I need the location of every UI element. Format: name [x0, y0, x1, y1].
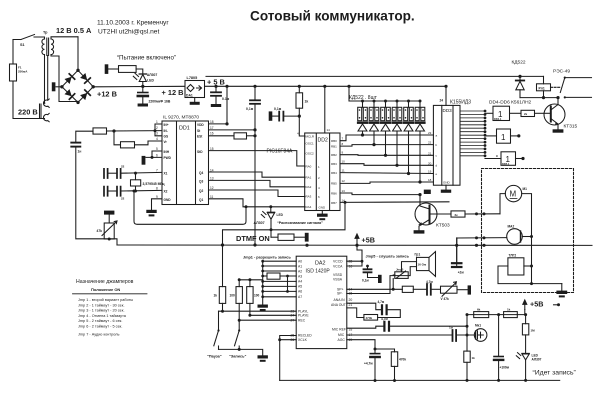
svg-text:RB5: RB5: [331, 182, 337, 186]
svg-text:+5В: +5В: [362, 236, 375, 245]
diode column 5: [404, 100, 414, 176]
svg-text:DD5.1: DD5.1: [502, 162, 510, 166]
svg-text:MCLR: MCLR: [306, 134, 315, 138]
svg-text:Q1: Q1: [199, 198, 203, 202]
svg-text:16 Ом: 16 Ом: [418, 263, 428, 267]
svg-text:+5В: +5В: [530, 300, 543, 309]
relay contact switch: [560, 77, 591, 99]
svg-text:РЭС-49: РЭС-49: [553, 69, 570, 75]
DD3 output node dots: [484, 110, 487, 158]
crystal ZQ1: [131, 172, 166, 193]
svg-text:Jmp5: Jmp5: [396, 268, 404, 272]
svg-text:DD4-DD6 К561ЛН2: DD4-DD6 К561ЛН2: [489, 100, 532, 106]
svg-text:A1: A1: [298, 264, 302, 268]
label +5V right: [523, 300, 544, 315]
LED VD7 DTMF indicator: [261, 212, 283, 238]
relay coil Rl1: [537, 76, 551, 97]
svg-text:StD: StD: [197, 150, 203, 154]
wire RB7 tape head feed: [457, 236, 507, 245]
svg-text:1k: 1k: [305, 100, 309, 104]
svg-text:Тр: Тр: [43, 31, 48, 35]
resistor R REC pullup: [247, 278, 260, 317]
svg-text:DD4.1: DD4.1: [494, 117, 502, 121]
diode column 3: [381, 100, 391, 157]
motor M1: [505, 185, 527, 201]
resistor R-led: [108, 66, 136, 73]
svg-text:RA3: RA3: [306, 195, 312, 199]
svg-text:2к: 2к: [455, 213, 459, 217]
wire DA2 VCC feed: [347, 245, 364, 266]
svg-text:VCCA: VCCA: [333, 264, 343, 268]
switch common ground: [219, 348, 268, 362]
svg-text:2: 2: [156, 126, 158, 130]
wire secondary to bridge top: [77, 37, 79, 71]
resistor R-in2: [121, 142, 135, 148]
cap C-micref 4.7: [347, 317, 469, 331]
wire PLAYL: [219, 310, 297, 312]
trimmer R-audio 47k: [97, 211, 118, 241]
svg-text:КТ315: КТ315: [564, 124, 578, 130]
transistor Q1 KT503: [415, 203, 451, 230]
wire SP+: [347, 288, 403, 291]
svg-text:UT2HI ut2hi@qsl.net: UT2HI ut2hi@qsl.net: [98, 29, 159, 36]
wire REC: [239, 319, 296, 321]
trimmer R-volume 47k: [441, 282, 468, 301]
svg-text:11: 11: [342, 169, 345, 173]
svg-text:RB7: RB7: [331, 201, 337, 205]
svg-text:3: 3: [156, 132, 158, 136]
svg-text:1: 1: [156, 120, 158, 124]
wire to LED VD5: [136, 69, 143, 74]
jumper ladder vertical tie: [286, 275, 289, 293]
resistor R-MCLR 1k: [296, 85, 308, 136]
svg-text:16: 16: [210, 132, 214, 136]
svg-text:24: 24: [440, 99, 444, 103]
jumper ladder A0-A7: [261, 260, 296, 305]
DD2 ground: [317, 211, 328, 221]
svg-text:AGC: AGC: [338, 338, 346, 342]
svg-text:2к: 2к: [524, 112, 528, 116]
svg-text:АЛ307: АЛ307: [532, 358, 542, 362]
wire row1 to DD1 X1: [121, 171, 162, 174]
head MA2: [507, 225, 533, 245]
wire relay bottom node: [520, 96, 560, 99]
terminal bar LED feed: [105, 64, 109, 74]
wire trimmer into bottom run: [108, 238, 110, 240]
svg-text:S1: S1: [20, 43, 25, 47]
svg-text:14: 14: [327, 128, 331, 132]
wire DD2 RB1 to DD3 p22: [340, 145, 433, 147]
switch S1: [13, 35, 43, 48]
svg-text:23: 23: [428, 131, 432, 135]
wire DD2 RB3 to DD3 p20: [340, 164, 433, 166]
svg-text:12 В 0.5 А: 12 В 0.5 А: [56, 26, 92, 35]
input capacitor C3: [71, 143, 81, 154]
svg-text:Рл1: Рл1: [539, 86, 545, 90]
svg-text:ESt: ESt: [197, 135, 203, 139]
svg-text:RB1: RB1: [331, 144, 337, 148]
chip DD2 PIC16F84A: [297, 128, 345, 211]
svg-text:“Распознавание сигнала”: “Распознавание сигнала”: [277, 221, 323, 225]
wire to motor: [500, 194, 505, 214]
DD1 GND ground: [146, 199, 162, 217]
terminal bar dtmf: [305, 233, 309, 242]
capacitor C1 2200u: [138, 86, 171, 106]
svg-text:Jmp1 - разрешить запись: Jmp1 - разрешить запись: [243, 255, 292, 259]
svg-text:0,1м: 0,1м: [274, 107, 282, 111]
svg-text:470k: 470k: [366, 316, 373, 320]
resistor R-mic3: [464, 351, 475, 382]
svg-text:6k: 6k: [477, 308, 481, 312]
svg-text:+4,7м: +4,7м: [364, 362, 373, 366]
svg-text:220 В: 220 В: [18, 108, 38, 117]
wire mains bottom: [13, 81, 45, 119]
svg-text:Jmp5 - слушать запись: Jmp5 - слушать запись: [366, 255, 410, 259]
chip DD1 MT8870 DTMF decoder: [162, 115, 209, 205]
inverter gate DD4.2: [485, 129, 520, 143]
terminal bar at bridge minus: [52, 82, 62, 91]
svg-text:1М: 1М: [531, 329, 536, 333]
svg-text:+100м: +100м: [500, 366, 510, 370]
resistor R1k PLAYL pullup: [214, 245, 226, 313]
speaker coupling cap big: [452, 238, 464, 275]
svg-text:A6: A6: [298, 290, 302, 294]
diode array top bus: [347, 85, 420, 101]
svg-text:КД522: КД522: [512, 60, 526, 66]
svg-text:“Пытание включено”: “Пытание включено”: [117, 55, 176, 62]
wire PLAYE: [250, 314, 296, 316]
svg-text:DD1: DD1: [179, 126, 190, 132]
wire left mains vertical: [12, 40, 14, 65]
svg-text:3,579545 МГц: 3,579545 МГц: [143, 182, 166, 186]
svg-text:Jmp 3 - 1 таймаут - 20 сек.: Jmp 3 - 1 таймаут - 20 сек.: [78, 309, 125, 313]
cap C-mic: [449, 326, 474, 342]
svg-text:8: 8: [156, 187, 158, 191]
svg-text:1k: 1k: [214, 294, 218, 298]
resistor R-mic2: [504, 308, 518, 318]
svg-text:1k: 1k: [507, 308, 511, 312]
svg-text:DD3: DD3: [443, 108, 453, 113]
node in1: [112, 129, 115, 132]
wire R-in2 to DD1 pin4: [135, 141, 163, 145]
svg-text:RA0: RA0: [306, 164, 312, 168]
svg-text:Мк1: Мк1: [475, 324, 481, 328]
svg-text:LED: LED: [277, 213, 284, 217]
wire R-in1 to DD1 pin2: [107, 130, 163, 132]
diode column 1: [358, 100, 368, 137]
svg-text:A4: A4: [298, 280, 302, 284]
svg-text:XCLK: XCLK: [298, 338, 308, 342]
svg-text:REC: REC: [298, 318, 306, 322]
diode VD6 KD522: [516, 75, 524, 98]
cap C-agc electrolytic: [364, 354, 380, 382]
wire row2 to DD1 X2: [121, 189, 162, 192]
inverter gate DD5.1: [485, 152, 525, 166]
wire audio bottom run: [76, 147, 117, 245]
svg-text:11.10.2003 г. Кременчуг: 11.10.2003 г. Кременчуг: [97, 20, 169, 27]
wire DD1 Q1/TOE to DD2 RA4: [209, 199, 305, 207]
svg-text:DA1: DA1: [186, 94, 193, 98]
unit TLG2: [498, 254, 562, 286]
svg-text:Jmp 2 - 1 таймаут - 30 сек.: Jmp 2 - 1 таймаут - 30 сек.: [78, 303, 125, 307]
wire DD2 RB5 to DD3 p18: [340, 182, 433, 183]
DD3 output stubs: [460, 111, 485, 156]
wire DD1 Q4 to DD2 RA1: [209, 172, 305, 177]
jumper table rule: [73, 293, 148, 295]
terminal bar audio out: [468, 285, 471, 294]
wire C4 down to DD1 St: [254, 105, 256, 246]
svg-text:0.1м: 0.1м: [222, 97, 230, 101]
svg-text:LED: LED: [147, 79, 154, 83]
microphone Mk1: [474, 324, 487, 342]
stray node right: [554, 303, 561, 306]
wire secondary to bridge bottom: [59, 56, 78, 102]
svg-text:18: 18: [428, 178, 432, 182]
svg-text:20: 20: [349, 298, 353, 302]
relay contact linkage dashed: [551, 86, 562, 88]
svg-text:0,1м: 0,1м: [246, 107, 254, 111]
svg-text:100: 100: [230, 294, 236, 298]
wire DD2 RB4 to DD3 p19: [340, 172, 433, 175]
wire +12V rail: [93, 85, 185, 88]
svg-text:VDD: VDD: [197, 123, 204, 127]
node TOE-X2: [133, 190, 136, 193]
jumper Jmp5: [393, 268, 408, 290]
svg-text:ANA OUT: ANA OUT: [331, 303, 346, 307]
svg-text:IN+: IN+: [164, 123, 169, 127]
svg-text:100: 100: [254, 294, 260, 298]
svg-text:VCCD: VCCD: [333, 260, 343, 264]
wire ANA IN: [347, 303, 381, 310]
svg-text:Jmp 6 - 2 таймаут - 5 сек.: Jmp 6 - 2 таймаут - 5 сек.: [78, 325, 122, 329]
DD1 pins1-3 bracket: [154, 124, 163, 136]
svg-text:“Идет запись”: “Идет запись”: [533, 370, 577, 377]
svg-text:М1: М1: [523, 187, 528, 191]
resistor R-A3: [267, 273, 296, 279]
chip DA2 ISD1420P: [291, 256, 353, 348]
svg-text:DD2: DD2: [318, 138, 328, 144]
tape unit ground: [556, 284, 567, 298]
wire MIC: [347, 334, 452, 336]
svg-text:Jmp 5 - 2 таймаут - 6 сек.: Jmp 5 - 2 таймаут - 6 сек.: [78, 319, 122, 323]
resistor R-dtmf: [271, 234, 305, 240]
svg-text:+12 В: +12 В: [97, 90, 117, 99]
cap C-mic electrolytic: [494, 315, 510, 382]
svg-text:13: 13: [342, 189, 346, 193]
wire RECLED XCLK: [278, 336, 296, 381]
wire motor to right bus: [522, 194, 532, 284]
resistor R-anaout 470k: [347, 308, 378, 320]
wire upper +5 branch to relay area: [206, 75, 544, 77]
svg-text:22: 22: [121, 197, 125, 201]
crystal load caps row2: [104, 187, 125, 201]
svg-text:GND: GND: [443, 181, 451, 185]
DD1 pin5-6 tie: [146, 151, 162, 159]
wire node to R-in2: [114, 131, 121, 145]
svg-text:1н: 1н: [78, 150, 82, 154]
svg-text:1: 1: [501, 133, 506, 142]
svg-text:RA1: RA1: [306, 175, 312, 179]
wire DD2 RB6 to KT503: [340, 193, 422, 204]
resistor R-motor: [451, 211, 500, 217]
svg-text:MIC REF: MIC REF: [332, 328, 346, 332]
decoupling caps DA2: [362, 265, 378, 283]
svg-text:PLAYE: PLAYE: [298, 314, 309, 318]
svg-text:250мА: 250мА: [18, 70, 28, 74]
wire AGC: [347, 340, 395, 353]
svg-text:Гр1: Гр1: [415, 253, 421, 257]
DD1 pin number labels: [156, 120, 214, 199]
wire DD2 RB2 to DD3 p21: [340, 154, 433, 157]
svg-text:L7805: L7805: [187, 76, 198, 80]
resistor R-sp 100k: [402, 286, 413, 292]
svg-text:M: M: [510, 190, 517, 199]
svg-text:Q3: Q3: [199, 180, 203, 184]
svg-text:IN-: IN-: [164, 129, 168, 133]
inverter gate DD4.1: [485, 106, 510, 121]
svg-text:“Запись”: “Запись”: [229, 355, 246, 359]
capacitor C5 0.1 MCLR: [269, 107, 301, 121]
cap C-anain 4.7: [378, 300, 401, 318]
capacitor C2 0.1 at regulator: [211, 85, 230, 107]
switch Pausa: [214, 311, 220, 349]
svg-text:DA2: DA2: [315, 261, 326, 267]
LED VD8 recording: [516, 353, 541, 382]
svg-text:VSSD: VSSD: [333, 273, 343, 277]
diode column 4: [392, 100, 402, 167]
svg-text:GND: GND: [319, 206, 327, 210]
svg-text:+ 12 В: + 12 В: [162, 88, 184, 97]
svg-text:0,1м: 0,1м: [362, 279, 369, 283]
svg-text:470k: 470k: [399, 358, 406, 362]
DD3 ground: [441, 185, 451, 193]
mic top feed wire: [466, 313, 528, 316]
svg-text:К155ИД3: К155ИД3: [450, 100, 471, 106]
bottom rail: [280, 379, 560, 381]
svg-text:A3: A3: [298, 274, 302, 278]
svg-text:Jmp 1 - второй вариант работы: Jmp 1 - второй вариант работы: [78, 298, 133, 302]
wire DD2 RB7 run: [340, 201, 449, 204]
svg-text:Jmp 7 - Аудио контроль: Jmp 7 - Аудио контроль: [78, 333, 119, 337]
svg-text:RB2: RB2: [331, 153, 337, 157]
svg-text:Q4: Q4: [199, 171, 203, 175]
wire +5V rail: [205, 85, 447, 87]
wire DD2 VDD to +5: [323, 85, 326, 133]
bridge rectifier VD1-VD4: [60, 69, 95, 105]
svg-text:2200мкФ 16В: 2200мкФ 16В: [149, 100, 171, 104]
svg-text:A2: A2: [298, 269, 302, 273]
svg-text:“Пауза”: “Пауза”: [207, 355, 222, 359]
svg-text:PWD: PWD: [164, 156, 172, 160]
terminal bar on DD1 pin6: [142, 156, 146, 165]
svg-text:22: 22: [428, 141, 432, 145]
svg-text:RB4: RB4: [331, 171, 337, 175]
svg-text:RB0: RB0: [331, 139, 337, 143]
wire mic node: [466, 315, 469, 352]
svg-text:Сотовый коммуникатор.: Сотовый коммуникатор.: [250, 9, 415, 24]
svg-text:OSC2: OSC2: [306, 152, 315, 156]
svg-text:IL 9270, MT8870: IL 9270, MT8870: [163, 115, 199, 121]
wire DD1 StD to DD2 RA0: [209, 151, 305, 166]
DTMF ON enable wire: [223, 202, 346, 245]
resistor R-led 1M: [522, 315, 535, 354]
svg-text:VSSA: VSSA: [333, 278, 343, 282]
svg-text:5: 5: [156, 147, 158, 151]
diode column 2: [369, 100, 379, 147]
svg-text:4,7м: 4,7м: [378, 300, 385, 304]
svg-text:7: 7: [156, 169, 158, 173]
KT503 emitter ground: [414, 230, 425, 233]
svg-text:12: 12: [210, 186, 214, 190]
svg-text:22: 22: [121, 165, 125, 169]
wire DD1 St to vertical: [209, 128, 257, 131]
svg-text:X1: X1: [164, 172, 168, 176]
jumper ladder ground: [258, 305, 268, 312]
svg-text:+2м: +2м: [458, 271, 465, 275]
svg-text:12: 12: [342, 179, 346, 183]
main +5 bus: [117, 243, 592, 247]
svg-text:ТЛГ2: ТЛГ2: [509, 254, 517, 258]
svg-text:OSC1: OSC1: [306, 141, 315, 145]
DD3 pin18 ground bar: [424, 190, 431, 194]
svg-text:4,7м: 4,7м: [381, 317, 388, 321]
svg-text:INH: INH: [164, 150, 170, 154]
plug connector: [40, 99, 50, 122]
wire cap to R input: [76, 131, 93, 142]
svg-text:МА2: МА2: [508, 225, 515, 229]
svg-text:Jmp 4 - Отмена 1 таймаута: Jmp 4 - Отмена 1 таймаута: [78, 314, 127, 318]
resistor R-agc 470k: [391, 352, 406, 382]
svg-text:Положение ON: Положение ON: [91, 287, 120, 292]
svg-text:A0: A0: [298, 260, 302, 264]
svg-text:6: 6: [156, 153, 158, 157]
svg-text:GS: GS: [164, 135, 169, 139]
diode column 6: [415, 100, 425, 184]
chip DD3 K155ID3: [428, 85, 471, 186]
wire DD1 Q3 to DD2 RA2: [209, 180, 305, 186]
wire DD2 RB0 to DD3 p23: [340, 135, 433, 141]
transformer T1: [42, 31, 78, 104]
svg-text:10: 10: [342, 160, 346, 164]
resistor R-ESt: [209, 133, 257, 139]
svg-text:1k: 1k: [472, 356, 476, 360]
LED VD5 AL307 power indicator: [133, 73, 157, 88]
wire pullup tops: [239, 279, 263, 281]
crystal load caps row1: [104, 165, 125, 179]
svg-text:PIC16F84A: PIC16F84A: [267, 149, 294, 155]
wire DD1 VDD to +5: [209, 85, 229, 126]
svg-text:47k: 47k: [97, 229, 103, 233]
svg-text:RB6: RB6: [331, 191, 337, 195]
label +5V mid: [355, 234, 375, 245]
svg-text:SP-: SP-: [337, 292, 343, 296]
KT315 emitter ground: [553, 129, 564, 132]
svg-text:21: 21: [428, 151, 432, 155]
switch Zapis: [235, 320, 241, 349]
voltage regulator DA1 7805: [185, 76, 205, 105]
svg-text:19: 19: [428, 170, 432, 174]
cap C-sp 4.7: [413, 280, 440, 295]
jumper table rows: [78, 298, 133, 337]
transistor Q2 KT315: [544, 98, 578, 130]
resistor R-mic1: [474, 308, 489, 318]
wire TOE loop branch: [134, 191, 248, 224]
terminal bar DA2 gnd: [378, 275, 382, 283]
svg-text:20: 20: [428, 161, 432, 165]
capacitor C4 0.1 on +5: [246, 85, 260, 111]
svg-text:КТ503: КТ503: [436, 223, 450, 229]
fuse F1: [10, 64, 29, 81]
